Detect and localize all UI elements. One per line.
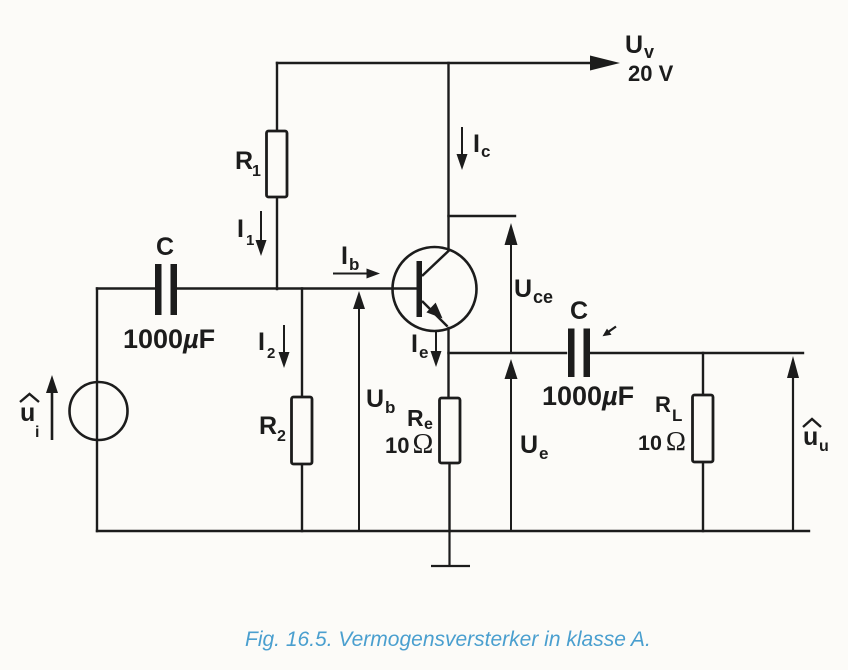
label Ie <box>411 330 428 362</box>
svg-text:b: b <box>349 255 359 274</box>
label Re <box>407 405 433 433</box>
label ui <box>20 394 39 441</box>
svg-text:c: c <box>481 142 490 161</box>
wire R2 branch <box>301 289 303 532</box>
current arrow I2 <box>279 325 290 368</box>
wire emitter drop <box>449 328 450 531</box>
svg-text:1: 1 <box>252 163 261 180</box>
svg-text:e: e <box>539 444 548 463</box>
current arrow Ic <box>457 127 468 170</box>
resistor R1 <box>267 131 288 197</box>
wire bottom rail <box>97 530 809 532</box>
svg-text:1000µF: 1000µF <box>123 324 215 354</box>
svg-text:b: b <box>385 398 395 417</box>
svg-text:U: U <box>520 431 538 459</box>
svg-text:U: U <box>514 275 532 303</box>
label Ue <box>520 431 548 463</box>
measurement arrow Ub <box>353 291 365 531</box>
svg-text:R: R <box>235 147 253 175</box>
source ui circle <box>70 382 128 440</box>
current arrow Ie <box>431 331 442 367</box>
label Ub <box>366 385 395 417</box>
svg-text:2: 2 <box>277 428 286 445</box>
resistor R2 <box>292 397 313 464</box>
label Ic <box>473 130 490 161</box>
transistor Q1 collector stroke <box>422 250 450 276</box>
arrow ui <box>46 375 58 440</box>
label R2 <box>259 412 286 445</box>
transistor Q1 emitter arrowhead <box>428 304 441 317</box>
svg-text:I: I <box>411 330 418 358</box>
svg-text:R: R <box>259 412 277 440</box>
capacitor C input <box>155 264 177 315</box>
measurement arrow Uce <box>505 223 518 353</box>
svg-text:I: I <box>341 242 348 270</box>
wire R1 top drop <box>276 63 278 131</box>
measurement arrow Ue <box>505 359 518 531</box>
transistor Q1 base bar <box>417 261 423 317</box>
svg-text:10Ω: 10Ω <box>638 426 686 456</box>
svg-text:R: R <box>407 405 424 431</box>
resistor RL <box>693 395 714 462</box>
svg-text:I: I <box>258 328 265 356</box>
wire R1 bottom to base node <box>276 197 278 289</box>
svg-text:C: C <box>570 297 588 325</box>
svg-text:1: 1 <box>246 232 254 249</box>
svg-text:20 V: 20 V <box>628 61 674 86</box>
label Uce <box>514 275 553 307</box>
transistor Q1 emitter stroke <box>422 301 448 327</box>
wire collector stub <box>449 215 516 217</box>
svg-text:U: U <box>625 31 643 59</box>
svg-text:L: L <box>672 406 682 425</box>
svg-text:i: i <box>35 424 39 441</box>
label Ib <box>341 242 359 274</box>
wire base left segment <box>97 287 155 289</box>
resistor Re <box>440 398 461 463</box>
label I1 <box>237 215 254 249</box>
label Uv <box>625 31 654 62</box>
ground <box>431 531 470 566</box>
svg-text:ce: ce <box>533 287 553 307</box>
svg-text:u: u <box>803 423 818 451</box>
current arrow Ib <box>333 269 380 279</box>
measurement arrow uu <box>787 356 799 531</box>
wire left input branch <box>96 289 98 532</box>
svg-text:R: R <box>655 392 671 417</box>
wire emitter node horizontal <box>449 352 804 354</box>
svg-text:I: I <box>237 215 244 243</box>
transistor Q1 body <box>393 247 477 331</box>
svg-text:2: 2 <box>267 345 275 362</box>
annotation arrow at C output <box>603 327 617 337</box>
svg-text:I: I <box>473 130 480 158</box>
wire RL branch <box>702 353 704 531</box>
current arrow I1 <box>256 211 267 256</box>
svg-text:e: e <box>419 343 428 362</box>
wire base right segment <box>177 287 417 289</box>
svg-text:U: U <box>366 385 384 413</box>
svg-text:v: v <box>644 42 654 62</box>
capacitor C output <box>568 329 590 378</box>
svg-text:10Ω: 10Ω <box>385 429 433 460</box>
label R1 <box>235 147 261 180</box>
wire collector drop from rail <box>447 63 449 250</box>
label uu <box>803 419 829 455</box>
wire top supply rail <box>277 62 594 64</box>
label RL <box>655 392 682 425</box>
svg-text:Fig. 16.5. Vermogensversterker: Fig. 16.5. Vermogensversterker in klasse… <box>245 628 651 651</box>
supply arrow Uv <box>590 56 620 71</box>
svg-text:u: u <box>819 438 829 455</box>
svg-text:C: C <box>156 233 174 261</box>
label I2 <box>258 328 275 362</box>
svg-text:1000µF: 1000µF <box>542 381 634 411</box>
svg-text:u: u <box>20 399 35 427</box>
